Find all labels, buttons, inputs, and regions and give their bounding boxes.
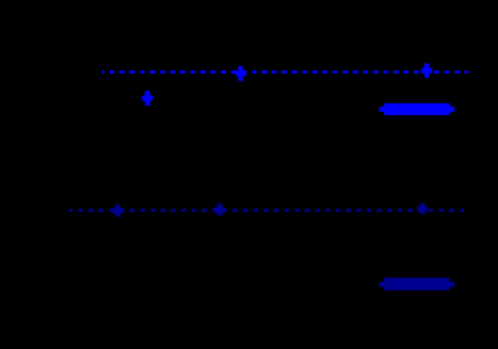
series 1 data point with error bar at x=427 [421,63,432,78]
series 1 data point with error bar at x=240 [235,66,246,81]
series 2 dashed fit line (navy) [69,209,466,212]
series 2 data point with error bar at x=422 [417,203,427,214]
series 1 data point with error bar at x=147 [142,91,153,106]
series 1 legend sample thick bar (blue) [379,103,455,115]
series 2 legend sample thick bar (navy) [379,278,455,291]
series 2 data point with error bar at x=220 [214,204,226,216]
series 2 data point with error bar at x=118 [112,204,123,217]
series 1 dashed fit line (blue) [102,70,468,73]
